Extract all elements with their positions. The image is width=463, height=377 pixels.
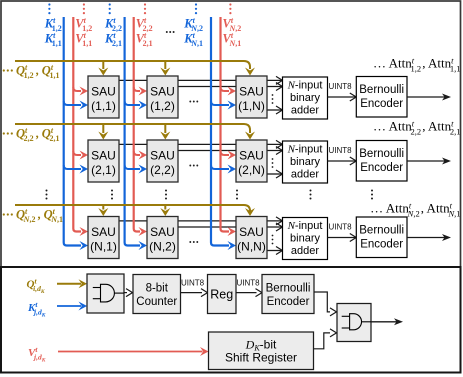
svg-text:UINT8: UINT8 bbox=[237, 278, 261, 287]
svg-text:Ktj,dK: Ktj,dK bbox=[27, 300, 46, 319]
dotted blue continuation line x=49.4 bbox=[48, 3, 50, 14]
svg-text:adder: adder bbox=[291, 105, 319, 117]
svg-text:Reg: Reg bbox=[210, 288, 233, 302]
wire K column 2 (blue vertical) bbox=[125, 17, 140, 246]
svg-text:Encoder: Encoder bbox=[360, 162, 403, 174]
svg-text:SAU: SAU bbox=[91, 225, 116, 239]
svg-text:UINT8: UINT8 bbox=[329, 146, 353, 155]
wire K into AND gate (blue arrow) bbox=[57, 305, 81, 307]
wire SAU(N,2) output to adder bbox=[178, 226, 283, 228]
svg-text:binary: binary bbox=[290, 92, 320, 104]
svg-text:Bernoulli: Bernoulli bbox=[359, 225, 404, 237]
wire SAU(1,2) output to adder bbox=[178, 86, 283, 88]
SAU (2,1) bbox=[88, 140, 119, 182]
svg-text:(2,2): (2,2) bbox=[150, 163, 175, 177]
SAU (1,2) bbox=[147, 76, 178, 118]
dotted red continuation line x=145.0 bbox=[144, 3, 146, 14]
wire SAU(2,N) output to adder bbox=[267, 173, 283, 175]
svg-text:Vt2,1: Vt2,1 bbox=[136, 31, 153, 48]
vdots between adder inputs row N bbox=[272, 235, 274, 245]
wire Q row 2 (olive horizontal) bbox=[15, 124, 250, 133]
wire K column 1 (blue vertical) bbox=[64, 17, 81, 246]
wire Bernoulli to AND gate 2 bbox=[314, 292, 330, 312]
vdots row continuation x=46.5 bbox=[46, 190, 48, 200]
svg-text:Counter: Counter bbox=[136, 296, 177, 308]
dotted red continuation line x=230.4 bbox=[229, 3, 231, 14]
N-input binary adder row 1 bbox=[283, 77, 328, 119]
SAU (1,N) bbox=[236, 76, 267, 118]
wire Bernoulli output row N bbox=[407, 237, 448, 239]
wire Bernoulli output row 2 bbox=[407, 160, 448, 162]
SAU (N,1) bbox=[88, 217, 119, 259]
wire K branch into SAU(2,1) bbox=[64, 165, 81, 169]
svg-text:VtN,1: VtN,1 bbox=[223, 31, 242, 48]
wire Q branch into SAU row N x=103.3 bbox=[102, 205, 104, 210]
top section frame bbox=[1, 1, 461, 267]
wire K branch into SAU(2,2) bbox=[125, 165, 140, 169]
svg-text:adder: adder bbox=[291, 245, 319, 257]
wire adder to Bernoulli row 1 bbox=[328, 96, 357, 98]
wire K column N (blue vertical) bbox=[211, 17, 229, 246]
vdots row continuation x=112.0 bbox=[111, 190, 113, 200]
svg-text:(N,1): (N,1) bbox=[90, 240, 117, 254]
wire SAU(N,N) output to adder bbox=[267, 250, 283, 252]
Bernoulli Encoder (bottom) bbox=[262, 275, 314, 314]
svg-text:QtN,2 , QtN,1: QtN,2 , QtN,1 bbox=[16, 207, 63, 224]
svg-text:binary: binary bbox=[290, 233, 320, 245]
wire V column N (red vertical) bbox=[221, 17, 230, 232]
svg-text:SAU: SAU bbox=[239, 85, 264, 99]
svg-text:SAU: SAU bbox=[239, 149, 264, 163]
wire V branch into SAU(1,2) bbox=[134, 87, 140, 91]
svg-text:Qt2,2 , Qt2,1: Qt2,2 , Qt2,1 bbox=[16, 126, 59, 143]
wire Q branch into SAU row 1 x=165.3 bbox=[164, 61, 166, 69]
svg-text:(2,N): (2,N) bbox=[238, 163, 265, 177]
svg-text:UINT8: UINT8 bbox=[329, 82, 353, 91]
svg-text:Encoder: Encoder bbox=[360, 239, 403, 251]
svg-text:(2,1): (2,1) bbox=[91, 163, 116, 177]
wire V branch into SAU(1,1) bbox=[73, 87, 81, 91]
N-input binary adder row N bbox=[283, 218, 328, 260]
svg-text:Qti,dK: Qti,dK bbox=[27, 276, 45, 295]
Bernoulli Encoder row 2 bbox=[356, 141, 407, 182]
svg-text:Vtj,dK: Vtj,dK bbox=[28, 345, 46, 364]
svg-text:(1,2): (1,2) bbox=[150, 99, 175, 113]
ellipsis between SAU columns row 1 bbox=[189, 101, 198, 103]
svg-text:KtN,1: KtN,1 bbox=[183, 31, 203, 48]
ellipsis between SAU columns row 2 bbox=[189, 165, 198, 167]
svg-text:Bernoulli: Bernoulli bbox=[359, 84, 404, 96]
dotted blue continuation line x=109.7 bbox=[109, 3, 111, 14]
wire SAU(1,1) output to adder bbox=[119, 79, 283, 81]
ellipsis between SAU columns row N bbox=[189, 241, 198, 243]
svg-text:Vt1,1: Vt1,1 bbox=[75, 31, 92, 48]
svg-text:(N,2): (N,2) bbox=[149, 240, 176, 254]
vdots between adder inputs row 2 bbox=[272, 158, 274, 168]
svg-text:SAU: SAU bbox=[239, 225, 264, 239]
svg-text:N-input: N-input bbox=[287, 220, 323, 232]
svg-text:… Attnt1,2 , Attnt1,1: … Attnt1,2 , Attnt1,1 bbox=[373, 55, 461, 73]
wire Q branch into SAU row 2 x=165.3 bbox=[164, 124, 166, 133]
svg-text:N-input: N-input bbox=[287, 144, 323, 156]
wire K branch into SAU(2,N) bbox=[211, 165, 229, 169]
wire counter to Reg bbox=[181, 292, 203, 294]
ellipsis before Q label row 2 bbox=[3, 132, 13, 134]
SAU (2,2) bbox=[147, 140, 178, 182]
wire V branch into SAU(2,1) bbox=[73, 151, 81, 155]
svg-text:… AttntN,2 , AttntN,1: … AttntN,2 , AttntN,1 bbox=[370, 200, 460, 218]
svg-text:UINT8: UINT8 bbox=[181, 278, 205, 287]
svg-text:N-input: N-input bbox=[287, 80, 323, 92]
svg-text:UINT8: UINT8 bbox=[329, 222, 353, 231]
N-input binary adder row 2 bbox=[283, 141, 328, 183]
wire adder to Bernoulli row 2 bbox=[328, 160, 357, 162]
Reg bbox=[208, 275, 237, 314]
vdots row continuation x=237.0 bbox=[236, 190, 238, 200]
svg-text:(1,1): (1,1) bbox=[91, 99, 116, 113]
wire SAU(2,2) output to adder bbox=[178, 150, 283, 152]
svg-text:(1,N): (1,N) bbox=[238, 99, 265, 113]
Bernoulli Encoder row N bbox=[356, 217, 407, 258]
svg-text:… Attnt2,2 , Attnt2,1: … Attnt2,2 , Attnt2,1 bbox=[373, 118, 461, 136]
SAU (N,N) bbox=[236, 217, 267, 259]
wire gate to counter bbox=[124, 292, 127, 294]
svg-text:(N,N): (N,N) bbox=[237, 240, 266, 254]
wire V branch into SAU(2,N) bbox=[221, 151, 230, 155]
wire V column 2 (red vertical) bbox=[134, 17, 140, 232]
wire K branch into SAU(1,N) bbox=[211, 101, 229, 105]
dotted blue continuation line x=196.0 bbox=[195, 3, 197, 14]
ellipsis between column groups bbox=[166, 31, 175, 33]
vdots row continuation x=372.0 bbox=[371, 190, 373, 200]
svg-text:adder: adder bbox=[291, 169, 319, 181]
wire Q branch into SAU row 2 x=103.3 bbox=[102, 124, 104, 133]
wire SAU(2,1) output to adder bbox=[119, 143, 283, 145]
svg-text:Encoder: Encoder bbox=[267, 296, 310, 308]
ellipsis before Q label row N bbox=[3, 213, 13, 215]
SAU (1,1) bbox=[88, 76, 119, 118]
svg-text:Kt2,1: Kt2,1 bbox=[104, 31, 122, 48]
Bernoulli Encoder row 1 bbox=[356, 77, 407, 118]
wire Q row 1 (olive horizontal) bbox=[15, 61, 250, 69]
wire V branch into SAU(2,2) bbox=[134, 151, 140, 155]
svg-text:SAU: SAU bbox=[150, 149, 175, 163]
wire V branch into SAU(1,N) bbox=[221, 87, 230, 91]
svg-text:Kt1,1: Kt1,1 bbox=[44, 31, 62, 48]
wire Q branch into SAU row 1 x=103.3 bbox=[102, 61, 104, 69]
svg-text:Bernoulli: Bernoulli bbox=[266, 283, 311, 295]
AND gate U1 (bottom left) bbox=[87, 274, 124, 313]
vdots row continuation x=310.5 bbox=[310, 190, 312, 200]
wire V column 1 (red vertical) bbox=[73, 17, 81, 232]
wire gate 2 output bbox=[371, 321, 399, 323]
svg-text:Qt1,2 , Qt1,1: Qt1,2 , Qt1,1 bbox=[16, 63, 59, 80]
vdots row continuation x=166.0 bbox=[165, 190, 167, 200]
ellipsis before Q label row 1 bbox=[3, 69, 13, 71]
svg-text:SAU: SAU bbox=[91, 85, 116, 99]
svg-text:SAU: SAU bbox=[150, 225, 175, 239]
wire adder to Bernoulli row N bbox=[328, 237, 357, 239]
DK-bit Shift Register bbox=[209, 332, 314, 370]
svg-text:Bernoulli: Bernoulli bbox=[359, 148, 404, 160]
svg-text:Encoder: Encoder bbox=[360, 98, 403, 110]
SAU (N,2) bbox=[147, 217, 178, 259]
8-bit Counter bbox=[133, 275, 181, 314]
svg-text:SAU: SAU bbox=[150, 85, 175, 99]
wire SAU(1,N) output to adder bbox=[267, 109, 283, 111]
wire SAU(N,1) output to adder bbox=[119, 220, 283, 222]
wire K branch into SAU(1,2) bbox=[125, 101, 140, 105]
svg-text:Shift Register: Shift Register bbox=[225, 351, 297, 365]
vdots between adder inputs row 1 bbox=[272, 94, 274, 104]
dotted red continuation line x=83.9 bbox=[83, 3, 85, 14]
svg-text:binary: binary bbox=[290, 156, 320, 168]
svg-text:8-bit: 8-bit bbox=[146, 283, 169, 295]
AND gate U2 (bottom right) bbox=[337, 304, 371, 342]
bottom section frame bbox=[1, 267, 461, 373]
wire V into shift register (red) bbox=[58, 351, 203, 353]
wire Q into AND gate (olive arrow) bbox=[57, 283, 81, 285]
wire Q branch into SAU row N x=165.3 bbox=[164, 205, 166, 210]
wire shift register to AND gate 2 bbox=[314, 333, 331, 349]
svg-text:SAU: SAU bbox=[91, 149, 116, 163]
wire K branch into SAU(1,1) bbox=[64, 101, 81, 105]
wire Q row N (olive horizontal) bbox=[15, 205, 250, 211]
wire Bernoulli output row 1 bbox=[407, 96, 448, 98]
SAU (2,N) bbox=[236, 140, 267, 182]
wire Reg to Bernoulli bbox=[236, 292, 257, 294]
